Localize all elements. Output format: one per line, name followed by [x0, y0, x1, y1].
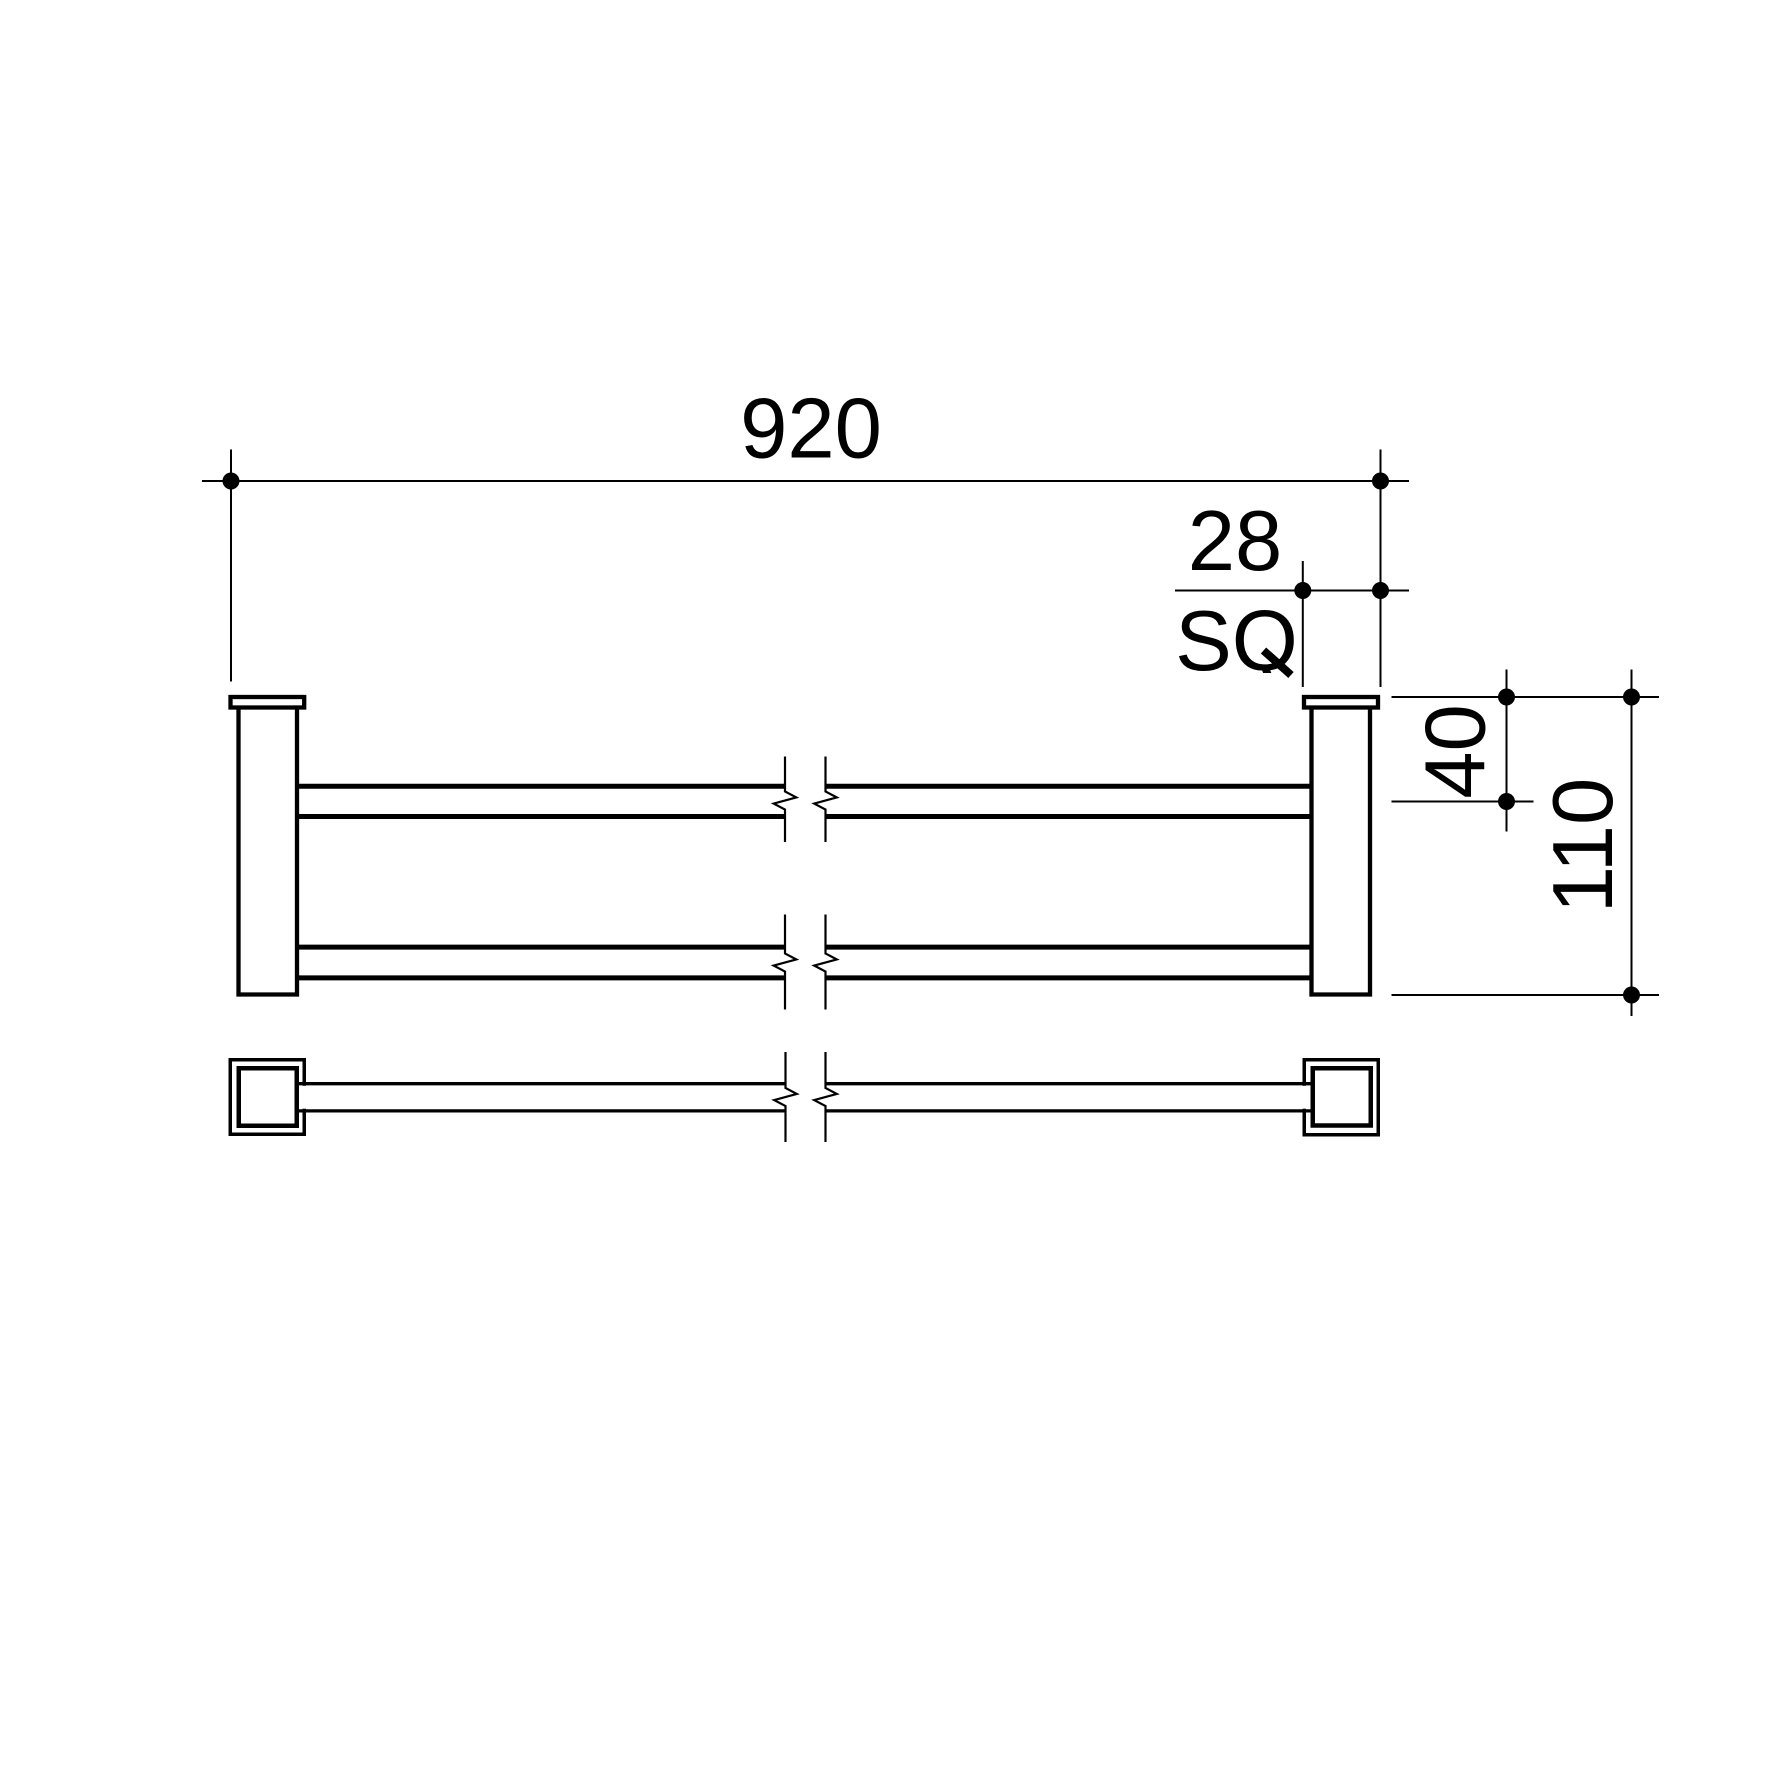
- dimension 920 right extension line: [1380, 450, 1382, 688]
- front view bottom rail lower line left segment: [299, 975, 785, 980]
- plan view bar upper line left segment: [299, 1082, 786, 1085]
- front view bottom rail upper line right segment: [826, 945, 1310, 950]
- dimension 40 bottom dot: [1498, 793, 1515, 810]
- plan view left bracket outer square: [230, 1060, 304, 1135]
- svg-text:28: 28: [1188, 494, 1283, 589]
- front view bottom rail break line right: [814, 915, 837, 1010]
- front view top rail break line right: [814, 757, 837, 843]
- front view top rail upper line right segment: [826, 784, 1310, 789]
- label SQ letter Q tail: [1264, 651, 1292, 676]
- dimension 28 right dot: [1372, 582, 1389, 599]
- front view top rail lower line left segment: [299, 814, 785, 819]
- front view right post cap: [1304, 697, 1378, 708]
- plan view right bracket outer square: [1304, 1060, 1378, 1135]
- front view top rail upper line left segment: [299, 784, 785, 789]
- dimension 28 left dot: [1294, 582, 1311, 599]
- plan view break line left: [774, 1052, 797, 1142]
- dimension 920 right dot: [1372, 473, 1389, 490]
- dimension 920 left dot: [223, 473, 240, 490]
- dimension 110 top dot: [1623, 689, 1640, 706]
- svg-text:110: 110: [1536, 778, 1631, 914]
- dimension 40 top dot: [1498, 689, 1515, 706]
- plan view left bracket inner square: [239, 1068, 297, 1126]
- plan view right bracket inner square: [1313, 1068, 1371, 1125]
- dimension 110 bottom dot: [1623, 987, 1640, 1004]
- dimension 920 line: [202, 480, 1409, 482]
- dimension 110 line: [1631, 670, 1633, 1017]
- plan view bar lower line left segment: [299, 1109, 786, 1112]
- dimension 40 top extension line: [1392, 696, 1660, 698]
- dimension 28 left extension line: [1302, 561, 1304, 687]
- plan view break line right: [814, 1052, 837, 1142]
- front view top rail break line left: [774, 757, 797, 843]
- dimension 40 line: [1506, 670, 1508, 832]
- svg-text:920: 920: [740, 382, 882, 477]
- front view bottom rail upper line left segment: [299, 945, 785, 950]
- svg-text:40: 40: [1409, 704, 1504, 799]
- front view left post body: [239, 709, 298, 995]
- front view top rail lower line right segment: [826, 814, 1310, 819]
- plan view left bracket slot: [300, 1086, 309, 1109]
- plan view bar lower line right segment: [826, 1109, 1312, 1112]
- front view left post cap: [231, 697, 305, 708]
- dimension 40 bottom extension line: [1392, 801, 1534, 803]
- dimension 28 line: [1175, 590, 1409, 592]
- dimension 110 bottom extension line: [1392, 994, 1660, 996]
- front view bottom rail lower line right segment: [826, 975, 1310, 980]
- dimension 920 left extension line: [230, 450, 232, 682]
- plan view bar upper line right segment: [826, 1082, 1312, 1085]
- front view bottom rail break line left: [774, 915, 797, 1010]
- plan view right bracket slot: [1300, 1086, 1309, 1109]
- front view right post body: [1312, 709, 1371, 995]
